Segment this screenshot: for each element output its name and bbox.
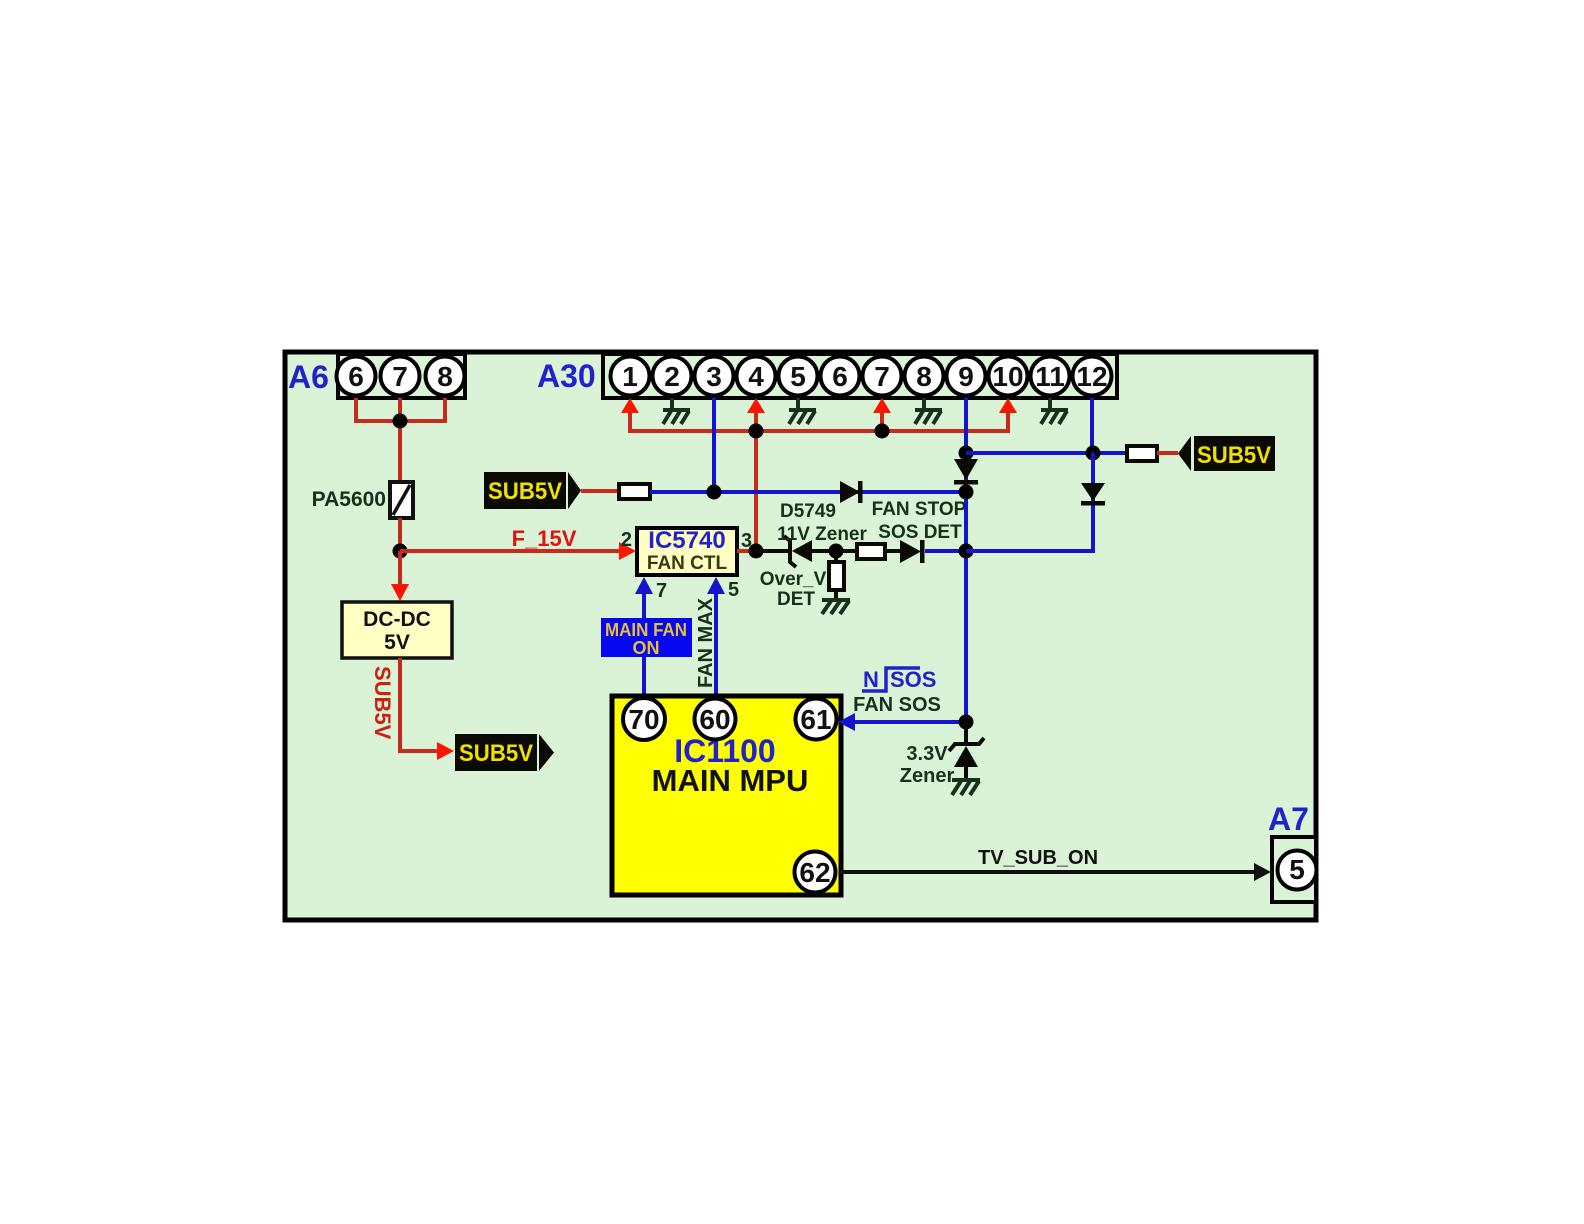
svg-text:FAN CTL: FAN CTL bbox=[647, 553, 728, 574]
svg-text:1: 1 bbox=[622, 361, 638, 392]
svg-text:5V: 5V bbox=[384, 631, 410, 654]
ground pin 2 bbox=[663, 398, 690, 424]
svg-text:7: 7 bbox=[656, 580, 667, 602]
svg-text:10: 10 bbox=[992, 361, 1023, 392]
wire A6 pins 6/7/8 join bbox=[356, 398, 445, 481]
svg-text:7: 7 bbox=[392, 361, 408, 392]
node bus junction pin4 bbox=[749, 424, 764, 439]
resistor to ground (Over_V) bbox=[829, 551, 844, 599]
wire pin9 vertical full bbox=[964, 453, 968, 722]
svg-text:MAIN MPU: MAIN MPU bbox=[652, 763, 809, 798]
wire top blue to right flag bbox=[966, 451, 1127, 455]
diode SOS DET bbox=[900, 540, 925, 563]
svg-text:ON: ON bbox=[633, 638, 660, 658]
svg-text:3: 3 bbox=[706, 361, 722, 392]
svg-text:SOS DET: SOS DET bbox=[878, 522, 962, 543]
arrow into pin 4 bbox=[747, 398, 765, 413]
svg-text:FAN STOP: FAN STOP bbox=[872, 499, 967, 520]
node junction pin9 top bbox=[959, 446, 974, 461]
svg-text:SUB5V: SUB5V bbox=[1197, 442, 1271, 469]
svg-text:TV_SUB_ON: TV_SUB_ON bbox=[978, 847, 1098, 869]
svg-text:DC-DC: DC-DC bbox=[363, 608, 431, 631]
fuse PA5600 bbox=[390, 482, 413, 518]
diagram frame bbox=[285, 352, 1316, 920]
wire pin3 blue down bbox=[712, 398, 716, 492]
wire FAN MAX to IC5740 pin5 bbox=[714, 593, 718, 697]
ground pin 8 bbox=[915, 398, 942, 424]
svg-text:11V Zener: 11V Zener bbox=[777, 524, 867, 545]
arrow into pin 61 bbox=[838, 713, 855, 731]
converter DC-DC 5V bbox=[342, 602, 452, 658]
svg-text:A7: A7 bbox=[1268, 801, 1309, 837]
arrow into IC5740 pin 5 bbox=[707, 577, 725, 594]
wire TV_SUB_ON bbox=[840, 870, 1256, 874]
label MAIN FAN ON bbox=[601, 618, 692, 658]
svg-text:5: 5 bbox=[1289, 854, 1305, 885]
svg-text:70: 70 bbox=[628, 704, 659, 735]
resistor chain horizontal bbox=[843, 544, 900, 559]
net flag SUB5V bottom-left bbox=[455, 734, 554, 771]
svg-text:61: 61 bbox=[800, 704, 831, 735]
wire resistor to right flag (red) bbox=[1157, 451, 1178, 455]
arrow into pin 1 bbox=[621, 398, 639, 413]
svg-text:MAIN FAN: MAIN FAN bbox=[605, 620, 687, 640]
ground 3.3V zener bbox=[952, 780, 980, 795]
svg-text:SUB5V: SUB5V bbox=[459, 740, 533, 767]
svg-text:Over_V: Over_V bbox=[760, 569, 827, 590]
svg-text:2: 2 bbox=[664, 361, 680, 392]
svg-text:D5749: D5749 bbox=[780, 501, 836, 522]
svg-text:9: 9 bbox=[958, 361, 974, 392]
svg-text:PA5600: PA5600 bbox=[312, 488, 386, 511]
zener D5749 bbox=[756, 536, 829, 567]
wire diode to pin9 line bbox=[925, 549, 966, 553]
wire junction down to DC-DC bbox=[398, 551, 402, 585]
wire pin12 blue down bbox=[1090, 398, 1094, 453]
svg-text:FAN SOS: FAN SOS bbox=[853, 694, 941, 716]
zener 3.3V bbox=[949, 722, 984, 779]
diode on pin12 branch bbox=[1081, 483, 1105, 506]
svg-text:SOS: SOS bbox=[890, 667, 936, 692]
wire pin9 blue down bbox=[964, 398, 968, 453]
arrow into SUB5V flag bbox=[437, 742, 454, 760]
svg-text:7: 7 bbox=[874, 361, 890, 392]
IC1100 MAIN MPU bbox=[612, 696, 841, 895]
pin 60 bbox=[695, 699, 736, 740]
connector A6 bbox=[337, 354, 466, 398]
svg-text:SUB5V: SUB5V bbox=[488, 478, 562, 505]
ground Over_V bbox=[822, 600, 850, 614]
svg-text:12: 12 bbox=[1076, 361, 1107, 392]
node junction FAN SOS bbox=[959, 715, 974, 730]
wire IC5740 pin3 to junction bbox=[737, 549, 756, 553]
ground pin 5 bbox=[789, 398, 816, 424]
wire red supply bus A30 bbox=[630, 412, 1008, 551]
wire MAIN FAN ON to IC5740 pin7 bbox=[642, 593, 646, 697]
svg-text:Zener: Zener bbox=[900, 765, 955, 787]
svg-text:3.3V: 3.3V bbox=[906, 743, 948, 765]
svg-text:SUB5V: SUB5V bbox=[370, 666, 395, 740]
node junction zener chain bbox=[829, 544, 844, 559]
connector A30 bbox=[603, 354, 1117, 398]
net flag SUB5V left bbox=[484, 472, 581, 509]
wire SUB5V blue line bbox=[650, 490, 966, 494]
node bus junction pin7 bbox=[875, 424, 890, 439]
resistor right bbox=[1127, 446, 1157, 461]
svg-text:5: 5 bbox=[790, 361, 806, 392]
svg-text:5: 5 bbox=[728, 579, 739, 601]
connector A7 bbox=[1272, 837, 1317, 902]
arrow into DC-DC bbox=[391, 584, 409, 601]
svg-text:4: 4 bbox=[748, 361, 764, 392]
wire pin12 branch bbox=[966, 453, 1093, 551]
svg-text:62: 62 bbox=[799, 857, 830, 888]
node junction pin12 top bbox=[1086, 446, 1101, 461]
resistor left bbox=[619, 484, 650, 499]
wire fuse to junction bbox=[398, 518, 402, 551]
wire F_15V to IC5740 pin 2 bbox=[400, 549, 620, 553]
net flag SUB5V right bbox=[1178, 436, 1275, 471]
node junction A6 bbox=[393, 414, 408, 429]
wire flag to resistor (red) bbox=[581, 489, 619, 493]
arrow into pin 10 bbox=[999, 398, 1017, 413]
arrow into IC5740 pin 2 bbox=[619, 542, 636, 560]
arrow into IC5740 pin 7 bbox=[635, 577, 653, 594]
svg-text:N: N bbox=[863, 667, 879, 692]
net N SOS label bbox=[862, 667, 936, 692]
node junction pin3/pin4 bbox=[749, 544, 764, 559]
arrow into pin 7 bbox=[873, 398, 891, 413]
svg-text:8: 8 bbox=[916, 361, 932, 392]
svg-text:2: 2 bbox=[621, 529, 632, 551]
svg-text:IC5740: IC5740 bbox=[648, 527, 725, 554]
svg-text:60: 60 bbox=[699, 704, 730, 735]
node junction pin9 mid bbox=[959, 485, 974, 500]
pin 62 bbox=[795, 852, 836, 893]
diode on pin9 line bbox=[954, 459, 978, 485]
wire DC-DC to SUB5V flag bbox=[400, 658, 438, 751]
svg-text:A30: A30 bbox=[537, 358, 596, 394]
svg-text:DET: DET bbox=[777, 589, 815, 610]
svg-text:A6: A6 bbox=[288, 359, 329, 395]
svg-text:11: 11 bbox=[1035, 361, 1065, 392]
node junction pin3/SUB5V bbox=[707, 485, 722, 500]
svg-text:F_15V: F_15V bbox=[512, 526, 577, 551]
pin 61 bbox=[796, 699, 837, 740]
svg-text:6: 6 bbox=[832, 361, 848, 392]
IC5740 bbox=[637, 527, 737, 575]
diode on SUB5V line bbox=[840, 481, 863, 503]
node junction pin9 chain bbox=[959, 544, 974, 559]
svg-text:FAN MAX: FAN MAX bbox=[695, 597, 717, 688]
svg-text:8: 8 bbox=[437, 361, 453, 392]
arrow into A7 pin 5 bbox=[1254, 863, 1271, 881]
ground pin 11 bbox=[1041, 398, 1068, 424]
wire FAN SOS into pin 61 bbox=[853, 720, 966, 724]
svg-text:6: 6 bbox=[348, 361, 364, 392]
pin 70 bbox=[623, 698, 665, 740]
node F_15V junction bbox=[393, 544, 408, 559]
